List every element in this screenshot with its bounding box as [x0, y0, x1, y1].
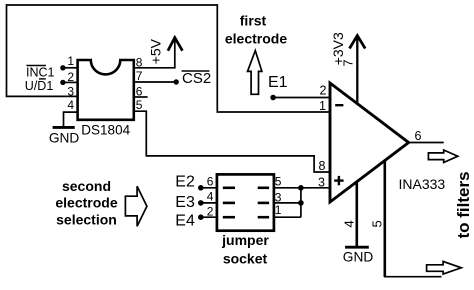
svg-text:INA333: INA333 [399, 176, 446, 192]
svg-text:2: 2 [320, 84, 327, 98]
jumper pin 3 (contact bar, number, wire to bus) [258, 190, 301, 204]
hollow up arrow (first electrode) [248, 51, 262, 95]
svg-text:1: 1 [275, 203, 282, 217]
svg-text:socket: socket [223, 250, 268, 266]
wire E1 to INA333 pin 2 [273, 97, 330, 99]
svg-text:to filters: to filters [454, 171, 473, 238]
DS1804 pin 4 (stub and wire to ground) [64, 98, 78, 127]
svg-text:first: first [240, 13, 267, 29]
op-amp U1 INA333 triangle [330, 83, 409, 202]
svg-text:+5V: +5V [148, 38, 164, 64]
jumper pin 1 (contact bar, number, wire to bus) [258, 203, 301, 217]
svg-text:4: 4 [67, 98, 74, 112]
jumper pin 2 (stub, contact bar, number) [201, 204, 235, 218]
hollow right arrow (second electrode selection) [125, 186, 146, 226]
caption: jumper socket [221, 232, 269, 266]
svg-text:GND: GND [49, 131, 80, 146]
svg-text:6: 6 [415, 129, 422, 143]
DS1804 pin 8 wire to +5V [134, 38, 175, 69]
+5V supply arrow [168, 38, 183, 51]
DS1804 pin 1 (stub, terminal dot, number) [60, 54, 77, 71]
svg-text:5: 5 [136, 98, 143, 112]
small hollow output arrow (pin 5) [427, 261, 462, 274]
svg-text:5: 5 [275, 174, 282, 188]
DS1804 pin 5 wire to INA333 pin 8 [134, 98, 330, 172]
INA333 pin 4 wire down to ground [341, 181, 356, 247]
E4 net label and terminal dot [175, 213, 203, 230]
svg-text:5: 5 [369, 220, 384, 227]
DS1804 pin 7 wire and terminal dot [134, 69, 179, 85]
wire bus joining jumper pins 5-3-1 with junction dots [298, 185, 304, 217]
DS1804 pin 6 stub [134, 85, 148, 99]
INA333 pin 5 wire to lower output [369, 160, 441, 277]
caption: first electrode [225, 13, 287, 47]
svg-text:E2: E2 [175, 173, 195, 190]
svg-text:DS1804: DS1804 [81, 123, 130, 138]
jumper socket body [217, 174, 274, 230]
ground GND (INA333 pin 4) [343, 247, 374, 265]
CS2 net label (overbar) [182, 70, 212, 87]
plus input symbol [334, 176, 343, 185]
svg-text:1: 1 [67, 54, 74, 68]
jumper pin 6 (stub, contact bar, number) [201, 174, 235, 188]
jumper pin 5 (contact bar, number, wire to INA333 pin 3) [258, 174, 330, 188]
svg-text:E4: E4 [175, 213, 195, 230]
svg-text:INC1: INC1 [26, 66, 55, 80]
svg-text:8: 8 [319, 159, 326, 173]
svg-text:4: 4 [207, 189, 214, 203]
wire: loop from DS1804 pin3 left-top-right to INA333 pin1 [7, 5, 331, 112]
svg-text:E3: E3 [175, 194, 195, 211]
svg-text:selection: selection [56, 211, 117, 227]
svg-text:CS2: CS2 [182, 70, 211, 87]
svg-text:2: 2 [207, 204, 214, 218]
svg-text:jumper: jumper [221, 232, 269, 248]
svg-text:1: 1 [319, 99, 326, 113]
caption: second electrode selection [55, 178, 117, 227]
svg-text:U/D1: U/D1 [25, 79, 54, 93]
svg-text:second: second [62, 178, 111, 194]
svg-text:6: 6 [136, 85, 143, 99]
svg-text:electrode: electrode [225, 31, 287, 47]
svg-text:4: 4 [341, 220, 356, 227]
svg-text:electrode: electrode [55, 195, 117, 211]
svg-text:GND: GND [343, 250, 374, 265]
E2 net label and terminal dot [175, 173, 203, 190]
ground GND (DS1804 pin 4) [49, 127, 80, 145]
INA333 pin 7 wire to +3V3 [342, 36, 358, 105]
U/D1 net label (overbar over D) [25, 79, 54, 93]
ic DS1804 body [78, 60, 134, 120]
svg-text:2: 2 [67, 70, 74, 84]
node E1 (terminal dot) [270, 95, 276, 101]
E3 net label and terminal dot [175, 194, 203, 211]
svg-text:8: 8 [136, 55, 143, 69]
svg-text:6: 6 [207, 174, 214, 188]
svg-text:E1: E1 [268, 74, 288, 91]
jumper pin 4 (stub, contact bar, number) [201, 189, 235, 203]
INC1 net label (overbar over INC) [26, 66, 55, 80]
svg-text:+3V3: +3V3 [330, 32, 346, 65]
DS1804 pin 2 (stub, terminal dot, number) [60, 70, 77, 85]
+3V3 supply arrow [350, 36, 366, 49]
svg-text:7: 7 [136, 69, 143, 83]
small hollow output arrow (pin 6) [428, 150, 457, 163]
INA333 pin 6 output wire [409, 129, 444, 143]
svg-text:3: 3 [67, 84, 74, 98]
minus input symbol [335, 104, 343, 106]
